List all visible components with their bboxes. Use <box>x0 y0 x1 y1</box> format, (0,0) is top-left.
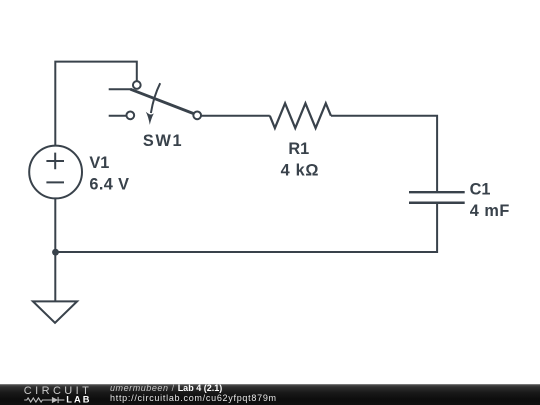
svg-text:4 mF: 4 mF <box>470 202 510 220</box>
svg-text:SW1: SW1 <box>143 132 183 150</box>
svg-text:LAB: LAB <box>66 395 91 405</box>
svg-text:C1: C1 <box>470 180 491 198</box>
svg-text:4 kΩ: 4 kΩ <box>281 161 320 179</box>
svg-text:R1: R1 <box>288 140 309 158</box>
